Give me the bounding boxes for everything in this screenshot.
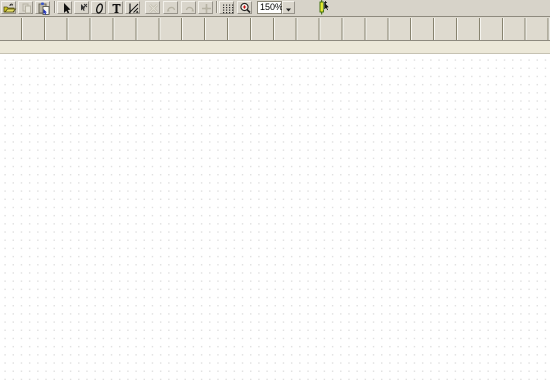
move-plus (disabled) [198,1,213,14]
select-pointer button [57,1,72,14]
separator [54,1,56,13]
zoom level field 150% [257,1,282,14]
wire-pen button [91,1,106,14]
component-edit icon [317,0,331,15]
grid-dots button [219,1,234,14]
redo (disabled) [181,1,196,14]
text T button [108,1,123,14]
dimension button [125,1,140,14]
delete X (disabled) [145,1,160,14]
separator [216,1,218,13]
open-folder button [1,1,16,14]
undo (disabled) [163,1,178,14]
zoom magnifier button [237,1,252,14]
zoom dropdown button [282,1,295,14]
paste button [35,1,50,14]
instant-edit button [74,1,89,14]
copy button (disabled) [18,1,33,14]
